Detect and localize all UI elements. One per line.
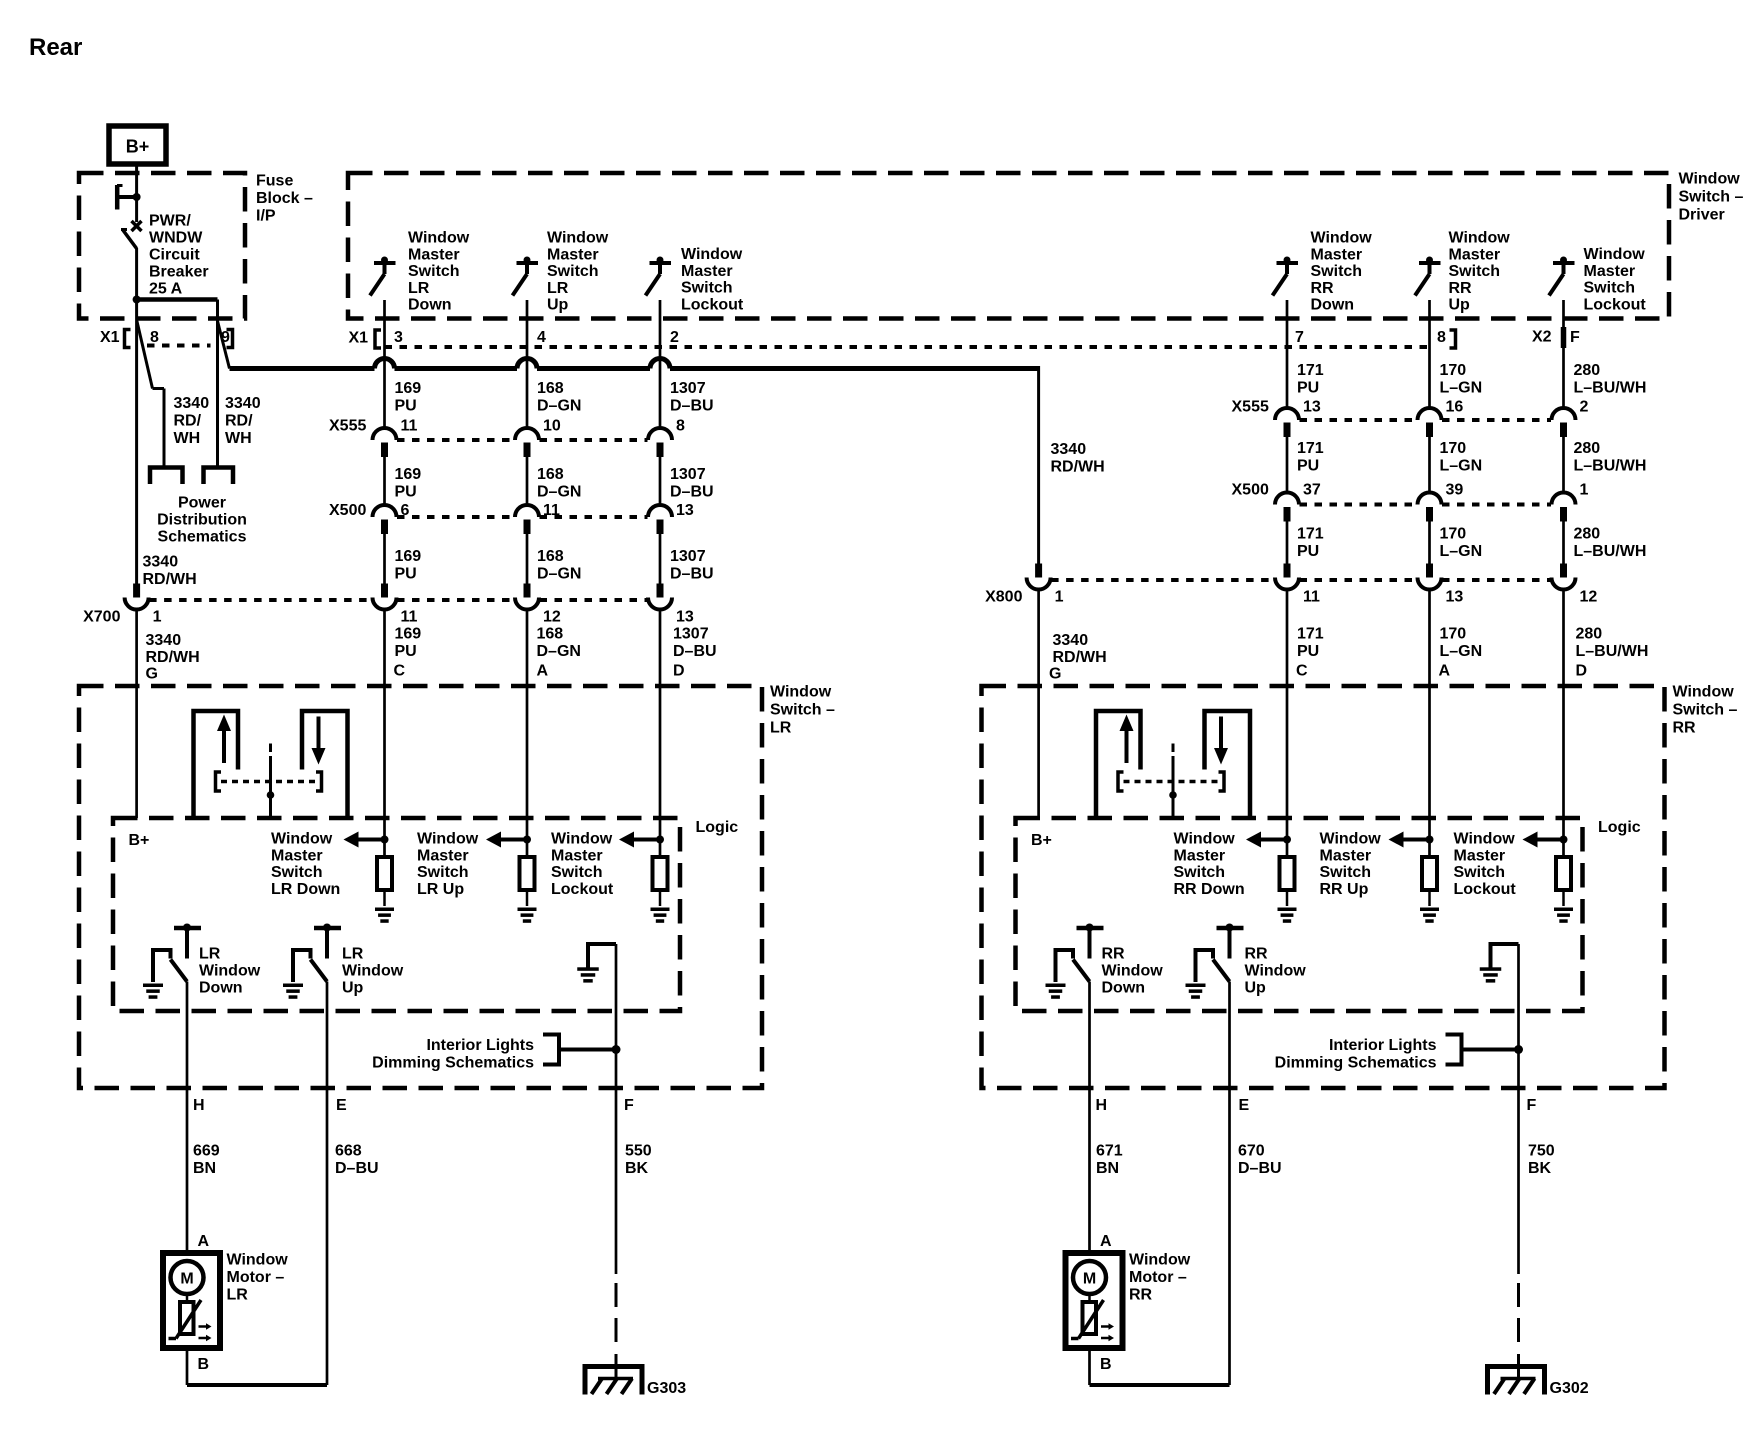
connector X555 right row bbox=[1232, 399, 1589, 438]
wire label 170 L-GN block1 bbox=[1440, 362, 1483, 397]
fuse block I/P box bbox=[79, 173, 245, 319]
svg-text:B: B bbox=[198, 1356, 210, 1373]
connector X2 bracket bbox=[1532, 327, 1564, 348]
svg-text:WH: WH bbox=[225, 430, 252, 447]
window switch RR label bbox=[1673, 684, 1738, 737]
svg-text:Window: Window bbox=[1449, 230, 1511, 247]
svg-text:Switch: Switch bbox=[271, 864, 323, 881]
switch RR window up bbox=[1186, 924, 1244, 999]
svg-text:Window: Window bbox=[342, 962, 404, 979]
wire 550 BK dashed to ground bbox=[615, 1283, 618, 1378]
switch label RR window up bbox=[1245, 946, 1307, 997]
battery feed B+ terminal bbox=[109, 126, 166, 164]
svg-text:280: 280 bbox=[1574, 526, 1601, 543]
wire label 168 D-GN block3 bbox=[537, 548, 581, 583]
svg-text:668: 668 bbox=[335, 1143, 362, 1160]
svg-text:L–BU/WH: L–BU/WH bbox=[1574, 380, 1647, 397]
wire G feed right bbox=[1037, 590, 1040, 819]
svg-text:Window: Window bbox=[1454, 831, 1516, 848]
svg-text:RR: RR bbox=[1102, 946, 1126, 963]
svg-text:170: 170 bbox=[1440, 526, 1467, 543]
wire 280 L-BU/WH segment C bbox=[1562, 522, 1565, 564]
svg-text:Switch: Switch bbox=[681, 280, 733, 297]
window switch RR box bbox=[982, 686, 1665, 1088]
svg-text:A: A bbox=[1439, 663, 1451, 680]
svg-text:1: 1 bbox=[1580, 482, 1589, 499]
svg-text:X500: X500 bbox=[1232, 482, 1269, 499]
connector X555 left row bbox=[329, 418, 685, 458]
svg-text:PU: PU bbox=[395, 566, 417, 583]
wire label 171 PU block2 bbox=[1297, 440, 1324, 475]
svg-text:L–GN: L–GN bbox=[1440, 380, 1483, 397]
svg-text:Master: Master bbox=[408, 246, 460, 263]
svg-text:Window: Window bbox=[227, 1252, 289, 1269]
svg-text:750: 750 bbox=[1528, 1143, 1555, 1160]
svg-text:PWR/: PWR/ bbox=[149, 213, 191, 230]
svg-text:BK: BK bbox=[1528, 1160, 1552, 1177]
interior lights dimming reference right bbox=[1275, 1035, 1523, 1072]
wire label 3340 RD/WH G left bbox=[146, 632, 200, 666]
svg-text:171: 171 bbox=[1297, 526, 1324, 543]
wire label 1307 D-BU D bbox=[673, 626, 717, 661]
wire LR up output E bbox=[326, 982, 329, 1386]
svg-text:LR Down: LR Down bbox=[271, 881, 340, 898]
wire 168 D-GN segment B bbox=[526, 457, 529, 505]
svg-text:Window: Window bbox=[1320, 831, 1382, 848]
svg-text:B+: B+ bbox=[1031, 832, 1052, 849]
power distribution schematics label bbox=[157, 495, 247, 546]
resistor window master switch LR down sense bbox=[344, 832, 395, 923]
wire label 671 BN bbox=[1096, 1143, 1123, 1178]
svg-text:Window: Window bbox=[1245, 962, 1307, 979]
wire label 170 L-GN block2 bbox=[1440, 440, 1483, 475]
switch window master switch lockout right bbox=[1549, 257, 1575, 296]
svg-text:BN: BN bbox=[1096, 1160, 1119, 1177]
svg-text:Lockout: Lockout bbox=[1454, 881, 1517, 898]
logic label window master switch RR down bbox=[1174, 831, 1245, 898]
svg-text:Driver: Driver bbox=[1679, 207, 1725, 224]
svg-text:13: 13 bbox=[1303, 399, 1321, 416]
svg-text:LR: LR bbox=[227, 1287, 249, 1304]
off-page power distribution bracket B bbox=[204, 468, 234, 485]
svg-text:PU: PU bbox=[1297, 380, 1319, 397]
svg-text:L–BU/WH: L–BU/WH bbox=[1574, 543, 1647, 560]
svg-text:170: 170 bbox=[1440, 626, 1467, 643]
svg-text:BN: BN bbox=[193, 1160, 216, 1177]
window switch driver label bbox=[1679, 171, 1744, 224]
svg-text:X1: X1 bbox=[349, 330, 369, 347]
svg-text:G302: G302 bbox=[1550, 1380, 1589, 1397]
svg-text:Master: Master bbox=[1584, 263, 1636, 280]
svg-text:F: F bbox=[1527, 1097, 1537, 1114]
svg-text:Breaker: Breaker bbox=[149, 264, 209, 281]
svg-text:Switch –: Switch – bbox=[770, 702, 835, 719]
connector X1 fuse block row bbox=[100, 329, 233, 348]
svg-text:Logic: Logic bbox=[696, 819, 739, 836]
svg-text:3340: 3340 bbox=[146, 632, 182, 649]
svg-text:6: 6 bbox=[401, 502, 410, 519]
svg-text:670: 670 bbox=[1238, 1143, 1265, 1160]
svg-text:Switch: Switch bbox=[1320, 864, 1372, 881]
connector X500 right row bbox=[1232, 482, 1589, 522]
svg-text:3340: 3340 bbox=[174, 395, 210, 412]
wire D into logic right bbox=[1562, 590, 1565, 858]
switch LR window down bbox=[143, 924, 201, 999]
svg-text:169: 169 bbox=[395, 466, 422, 483]
wire A into logic left bbox=[526, 610, 529, 858]
wire LR down output H bbox=[186, 982, 189, 1254]
svg-text:PU: PU bbox=[1297, 543, 1319, 560]
svg-text:550: 550 bbox=[625, 1143, 652, 1160]
svg-text:D–BU: D–BU bbox=[673, 643, 717, 660]
svg-text:F: F bbox=[1570, 329, 1580, 346]
fuse block label bbox=[256, 173, 313, 225]
logic box left bbox=[113, 818, 680, 1011]
svg-text:RD/WH: RD/WH bbox=[1053, 649, 1107, 666]
svg-text:171: 171 bbox=[1297, 362, 1324, 379]
svg-text:37: 37 bbox=[1303, 482, 1321, 499]
wire label 169 PU block2 bbox=[395, 466, 422, 501]
svg-text:3340: 3340 bbox=[225, 395, 261, 412]
svg-text:Distribution: Distribution bbox=[157, 512, 247, 529]
switch label RR down bbox=[1311, 230, 1373, 314]
svg-text:Master: Master bbox=[1174, 847, 1226, 864]
svg-text:Interior Lights: Interior Lights bbox=[1329, 1037, 1437, 1054]
svg-text:11: 11 bbox=[543, 502, 560, 519]
svg-text:L–BU/WH: L–BU/WH bbox=[1574, 458, 1647, 475]
svg-text:LR: LR bbox=[342, 946, 364, 963]
wire RR down output H bbox=[1088, 982, 1091, 1254]
svg-text:Block –: Block – bbox=[256, 190, 313, 207]
svg-text:2: 2 bbox=[1580, 399, 1589, 416]
svg-text:Window: Window bbox=[199, 962, 261, 979]
svg-text:PU: PU bbox=[1297, 643, 1319, 660]
svg-text:Window: Window bbox=[271, 831, 333, 848]
svg-text:Down: Down bbox=[1102, 979, 1146, 996]
svg-text:7: 7 bbox=[1295, 329, 1304, 346]
wire RR up output E bbox=[1228, 982, 1231, 1386]
wire B+ bus 3340 RD/WH bbox=[230, 359, 1039, 369]
svg-text:A: A bbox=[198, 1233, 210, 1250]
ground G302 bbox=[1488, 1367, 1589, 1398]
svg-text:X2: X2 bbox=[1532, 329, 1552, 346]
motor window motor LR bbox=[163, 1253, 220, 1348]
interior lights dimming reference left bbox=[372, 1035, 620, 1072]
svg-text:RD/: RD/ bbox=[225, 413, 253, 430]
wire label 280 L-BU/WH block1 bbox=[1574, 362, 1647, 397]
svg-text:B+: B+ bbox=[129, 832, 150, 849]
svg-text:Master: Master bbox=[681, 263, 733, 280]
svg-text:D–GN: D–GN bbox=[537, 643, 581, 660]
wire C into logic left bbox=[383, 610, 386, 858]
svg-text:B+: B+ bbox=[126, 137, 150, 157]
switch window master switch LR up bbox=[513, 257, 539, 296]
svg-text:2: 2 bbox=[670, 329, 679, 346]
svg-text:Master: Master bbox=[1449, 246, 1501, 263]
svg-text:C: C bbox=[1296, 663, 1308, 680]
svg-text:Lockout: Lockout bbox=[1584, 296, 1647, 313]
svg-text:L–BU/WH: L–BU/WH bbox=[1576, 643, 1649, 660]
wire 168 D-GN segment C bbox=[526, 534, 529, 584]
svg-text:171: 171 bbox=[1297, 440, 1324, 457]
svg-text:Switch: Switch bbox=[1449, 263, 1501, 280]
logic label window master switch LR down bbox=[271, 831, 340, 898]
svg-text:PU: PU bbox=[395, 643, 417, 660]
svg-text:Switch: Switch bbox=[1311, 263, 1363, 280]
svg-text:LR: LR bbox=[770, 720, 792, 737]
wire label 168 D-GN A bbox=[537, 626, 581, 661]
wire label 1307 D-BU block1 bbox=[670, 380, 714, 415]
wire 1307 D-BU segment B bbox=[659, 457, 662, 505]
switch label lockout right bbox=[1584, 246, 1647, 313]
svg-text:11: 11 bbox=[401, 609, 418, 626]
svg-text:RR: RR bbox=[1673, 720, 1697, 737]
svg-text:Window: Window bbox=[681, 246, 743, 263]
svg-text:168: 168 bbox=[537, 466, 564, 483]
svg-text:A: A bbox=[1100, 1233, 1112, 1250]
svg-text:1307: 1307 bbox=[670, 548, 706, 565]
svg-text:H: H bbox=[1096, 1097, 1108, 1114]
wire label 169 PU block3 bbox=[395, 548, 422, 583]
svg-text:1: 1 bbox=[1055, 589, 1064, 606]
wire 171 PU segment C bbox=[1286, 522, 1289, 564]
svg-text:RR: RR bbox=[1129, 1287, 1153, 1304]
wire pin 8 branch to power distribution bbox=[137, 321, 164, 468]
window switch driver box bbox=[348, 173, 1669, 319]
svg-text:M: M bbox=[1083, 1271, 1096, 1288]
svg-text:Switch: Switch bbox=[408, 263, 460, 280]
switch label RR up bbox=[1449, 230, 1511, 314]
motor label window motor RR bbox=[1129, 1252, 1191, 1304]
svg-text:Switch: Switch bbox=[547, 263, 599, 280]
wire 170 L-GN segment B bbox=[1428, 437, 1431, 493]
svg-text:Motor –: Motor – bbox=[227, 1269, 285, 1286]
wire 280 L-BU/WH segment A bbox=[1562, 300, 1565, 408]
wire label 170 L-GN A bbox=[1440, 626, 1483, 661]
circuit breaker PWR/WNDW 25A bbox=[116, 185, 142, 249]
svg-text:1: 1 bbox=[153, 609, 162, 626]
svg-text:169: 169 bbox=[395, 548, 422, 565]
svg-text:Window: Window bbox=[417, 831, 479, 848]
svg-text:D–BU: D–BU bbox=[335, 1160, 379, 1177]
wire label 550 BK bbox=[625, 1143, 652, 1178]
svg-text:Down: Down bbox=[199, 979, 243, 996]
svg-text:Window: Window bbox=[1129, 1252, 1191, 1269]
svg-text:Master: Master bbox=[271, 847, 323, 864]
svg-text:Master: Master bbox=[1320, 847, 1372, 864]
svg-text:Up: Up bbox=[1449, 297, 1471, 314]
wire 1307 D-BU segment A bbox=[659, 300, 662, 428]
svg-text:RD/WH: RD/WH bbox=[146, 649, 200, 666]
svg-text:LR: LR bbox=[199, 946, 221, 963]
svg-text:M: M bbox=[180, 1271, 193, 1288]
svg-text:Window: Window bbox=[547, 230, 609, 247]
wire 550 BK upper bbox=[615, 944, 618, 1274]
svg-text:RR Up: RR Up bbox=[1320, 881, 1369, 898]
ground G303 bbox=[585, 1367, 686, 1398]
svg-text:RD/WH: RD/WH bbox=[1051, 459, 1105, 476]
switch window master switch LR down bbox=[370, 257, 396, 296]
motor label window motor LR bbox=[227, 1252, 289, 1304]
svg-text:12: 12 bbox=[1580, 589, 1598, 606]
svg-text:Lockout: Lockout bbox=[681, 296, 744, 313]
svg-text:16: 16 bbox=[1446, 399, 1464, 416]
svg-text:8: 8 bbox=[150, 329, 159, 346]
svg-text:WH: WH bbox=[174, 430, 201, 447]
svg-text:RR: RR bbox=[1311, 280, 1335, 297]
svg-text:Up: Up bbox=[342, 979, 364, 996]
svg-text:X500: X500 bbox=[329, 502, 366, 519]
wire label 169 PU C bbox=[395, 626, 422, 661]
svg-text:669: 669 bbox=[193, 1143, 220, 1160]
connector X700 row bbox=[83, 584, 694, 626]
svg-text:E: E bbox=[1239, 1097, 1250, 1114]
svg-text:4: 4 bbox=[537, 329, 546, 346]
svg-text:Logic: Logic bbox=[1598, 819, 1641, 836]
switch label LR window up bbox=[342, 946, 404, 997]
svg-text:168: 168 bbox=[537, 548, 564, 565]
resistor window master switch lockout sense right bbox=[1523, 832, 1574, 923]
resistor window master switch RR up sense bbox=[1389, 832, 1440, 923]
wire label 668 D-BU bbox=[335, 1143, 379, 1178]
svg-text:3: 3 bbox=[394, 329, 403, 346]
logic label window master switch LR up bbox=[417, 831, 479, 898]
svg-text:PU: PU bbox=[395, 398, 417, 415]
svg-text:Schematics: Schematics bbox=[158, 529, 247, 546]
wire 750 BK upper bbox=[1517, 944, 1520, 1274]
svg-text:Window: Window bbox=[1679, 171, 1741, 188]
svg-text:13: 13 bbox=[1446, 589, 1464, 606]
switch window master switch lockout left bbox=[646, 257, 672, 296]
svg-text:G: G bbox=[146, 666, 158, 683]
svg-text:PU: PU bbox=[395, 484, 417, 501]
svg-text:D–GN: D–GN bbox=[537, 398, 581, 415]
svg-text:Window: Window bbox=[1311, 230, 1373, 247]
svg-text:B: B bbox=[1100, 1356, 1112, 1373]
svg-text:LR Up: LR Up bbox=[417, 881, 464, 898]
svg-text:169: 169 bbox=[395, 626, 422, 643]
wire pin 9 drop bbox=[216, 300, 219, 468]
wire 1307 D-BU segment C bbox=[659, 534, 662, 584]
wire label 168 D-GN block1 bbox=[537, 380, 581, 415]
wire 171 PU segment A bbox=[1286, 300, 1289, 408]
svg-text:I/P: I/P bbox=[256, 208, 276, 225]
wire label 1307 D-BU block3 bbox=[670, 548, 714, 583]
switch label RR window down bbox=[1102, 946, 1164, 997]
switch label lockout left bbox=[681, 246, 744, 313]
svg-text:170: 170 bbox=[1440, 440, 1467, 457]
svg-text:3340: 3340 bbox=[1051, 441, 1087, 458]
svg-text:39: 39 bbox=[1446, 482, 1464, 499]
svg-text:Switch –: Switch – bbox=[1673, 702, 1738, 719]
svg-text:280: 280 bbox=[1576, 626, 1603, 643]
wire label 3340 RD/WH right bbox=[225, 395, 261, 447]
rocker mechanism right bbox=[1096, 711, 1250, 818]
svg-text:E: E bbox=[336, 1097, 347, 1114]
logic label window master switch lockout right bbox=[1454, 831, 1517, 898]
svg-text:G: G bbox=[1049, 666, 1061, 683]
svg-text:Up: Up bbox=[547, 297, 569, 314]
svg-text:1307: 1307 bbox=[670, 380, 706, 397]
wire label 280 L-BU/WH block2 bbox=[1574, 440, 1647, 475]
wire 171 PU segment B bbox=[1286, 437, 1289, 493]
ground hook lockout left bbox=[577, 944, 616, 983]
logic label window master switch RR up bbox=[1320, 831, 1382, 898]
wire motor LR return bbox=[187, 1348, 327, 1385]
svg-text:12: 12 bbox=[543, 609, 561, 626]
wire label 3340 RD/WH left bbox=[174, 395, 210, 447]
window switch LR label bbox=[770, 684, 835, 737]
svg-text:Switch: Switch bbox=[417, 864, 469, 881]
connector X1 driver row bbox=[349, 330, 1431, 349]
svg-text:G303: G303 bbox=[647, 1380, 686, 1397]
wire 170 L-GN segment A bbox=[1428, 300, 1431, 408]
svg-text:D–GN: D–GN bbox=[537, 484, 581, 501]
wire 3340 RD/WH pin 8 feed bbox=[135, 197, 138, 584]
svg-text:Down: Down bbox=[1311, 297, 1355, 314]
svg-text:D: D bbox=[673, 663, 685, 680]
resistor window master switch RR down sense bbox=[1246, 832, 1297, 923]
svg-text:13: 13 bbox=[676, 502, 694, 519]
svg-text:3340: 3340 bbox=[143, 554, 179, 571]
svg-text:X700: X700 bbox=[83, 609, 120, 626]
svg-text:Lockout: Lockout bbox=[551, 881, 614, 898]
svg-text:Window: Window bbox=[1673, 684, 1735, 701]
svg-text:Master: Master bbox=[547, 246, 599, 263]
svg-text:Master: Master bbox=[1454, 847, 1506, 864]
svg-text:171: 171 bbox=[1297, 626, 1324, 643]
wire label 169 PU block1 bbox=[395, 380, 422, 415]
svg-text:280: 280 bbox=[1574, 440, 1601, 457]
svg-text:Up: Up bbox=[1245, 979, 1267, 996]
wire label 171 PU block1 bbox=[1297, 362, 1324, 397]
wire 169 PU segment B bbox=[383, 457, 386, 505]
wire breaker to pin 9 jumper bbox=[133, 296, 218, 304]
svg-text:Power: Power bbox=[178, 495, 226, 512]
svg-text:8: 8 bbox=[1437, 329, 1446, 346]
off-page power distribution bracket A bbox=[150, 468, 183, 485]
switch label LR down bbox=[408, 230, 470, 314]
svg-text:Down: Down bbox=[408, 297, 452, 314]
svg-text:Fuse: Fuse bbox=[256, 173, 293, 190]
svg-text:Master: Master bbox=[551, 847, 603, 864]
svg-text:170: 170 bbox=[1440, 362, 1467, 379]
svg-text:Switch: Switch bbox=[1174, 864, 1226, 881]
svg-text:10: 10 bbox=[543, 418, 561, 435]
svg-text:Window: Window bbox=[408, 230, 470, 247]
svg-text:WNDW: WNDW bbox=[149, 230, 203, 247]
svg-text:13: 13 bbox=[676, 609, 694, 626]
pin 8 with bracket bbox=[1437, 329, 1456, 348]
logic box right bbox=[1016, 818, 1583, 1011]
svg-text:X1: X1 bbox=[100, 329, 120, 346]
wire label 1307 D-BU block2 bbox=[670, 466, 714, 501]
wire pin 9 branch to bus bbox=[218, 321, 230, 369]
switch LR window up bbox=[283, 924, 341, 999]
wire label 669 BN bbox=[193, 1143, 220, 1178]
svg-text:Rear: Rear bbox=[29, 34, 82, 61]
svg-text:Interior Lights: Interior Lights bbox=[426, 1037, 534, 1054]
svg-text:Master: Master bbox=[1311, 246, 1363, 263]
wire bus drop to X800 bbox=[1037, 366, 1040, 564]
svg-text:D: D bbox=[1576, 663, 1588, 680]
wire 169 PU segment C bbox=[383, 534, 386, 584]
wire label 171 PU C bbox=[1297, 626, 1324, 661]
svg-text:D–BU: D–BU bbox=[670, 398, 714, 415]
resistor window master switch LR up sense bbox=[486, 832, 537, 923]
svg-text:11: 11 bbox=[401, 418, 418, 435]
svg-text:25 A: 25 A bbox=[149, 281, 183, 298]
